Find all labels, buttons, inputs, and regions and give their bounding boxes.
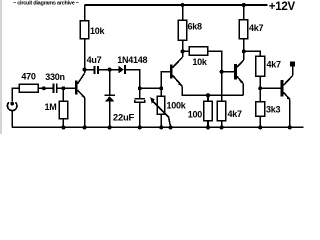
svg-text:6k8: 6k8	[188, 21, 203, 31]
svg-text:+12V: +12V	[269, 1, 296, 13]
wire jack tip to R470	[12, 88, 19, 101]
+12V rail (top)	[85, 4, 268, 6]
svg-text:330n: 330n	[45, 72, 65, 82]
label +12V	[269, 1, 296, 13]
transistor Q2	[171, 51, 182, 86]
wire C4u7 to D1	[98, 69, 119, 71]
diode D2 (clamp to ground)	[104, 70, 115, 128]
resistor 4k7 (emitter)	[217, 101, 226, 120]
ground rail (bottom)	[12, 126, 303, 128]
wire to Q4 base	[260, 87, 281, 89]
resistor 3k3	[259, 88, 261, 102]
node envelope junction	[138, 86, 142, 90]
node Q1 collector junction	[83, 68, 87, 72]
capacitor 22uF	[135, 88, 145, 127]
transistor Q4	[282, 66, 293, 99]
wire node A down to 1M	[62, 88, 64, 101]
svg-text:4k7: 4k7	[249, 23, 264, 33]
node Q4 base	[258, 86, 262, 90]
wire R100 drop	[207, 95, 209, 101]
node R100 junction	[206, 93, 210, 97]
svg-text:1N4148: 1N4148	[117, 55, 147, 65]
node Q3 base tap	[220, 70, 224, 74]
svg-text:100: 100	[188, 110, 203, 120]
node Q3 collector / 4k7	[242, 49, 246, 53]
output terminal	[290, 62, 295, 67]
resistor 10k (Q1 collector load)	[84, 5, 86, 21]
capacitor 4u7	[94, 66, 96, 74]
resistor 4k7 (interstage)	[256, 56, 265, 76]
transistor Q3	[236, 51, 244, 83]
svg-text:100k: 100k	[167, 101, 187, 111]
svg-text:470: 470	[21, 71, 36, 81]
wire Q1 emitter to ground	[84, 98, 86, 128]
svg-text:10k: 10k	[192, 57, 208, 67]
watermark smudge	[13, 1, 79, 7]
svg-text:1M: 1M	[44, 102, 56, 112]
wire 10k right to riser	[208, 51, 222, 101]
svg-text:3k3: 3k3	[266, 105, 281, 115]
input jack J1	[7, 102, 17, 128]
wire C330n to Q1 base	[57, 87, 75, 89]
resistor 100	[204, 101, 213, 120]
frame left faint edge	[0, 0, 2, 134]
node dot	[42, 86, 46, 90]
svg-text:4k7: 4k7	[267, 60, 282, 70]
wire collector to C4u7	[85, 69, 95, 71]
node Q2 collector	[181, 49, 185, 53]
svg-text:~ circuit diagrams archive ~: ~ circuit diagrams archive ~	[13, 1, 79, 7]
resistor 4k7 (Q3 collector load)	[242, 3, 246, 7]
wire Q4 emitter to ground	[289, 99, 291, 127]
wire 1M to ground	[62, 119, 64, 128]
wire R470 to C330n	[38, 87, 53, 89]
potentiometer 100k	[150, 88, 170, 127]
wire Q3 emitter down	[242, 84, 244, 95]
resistor 6k8	[181, 3, 185, 7]
wire node up to Q2 base	[161, 72, 170, 89]
node pot / Q2 base	[159, 86, 163, 90]
wire envelope node to pot node	[140, 87, 161, 89]
wire Q2 emitter down and right	[182, 86, 243, 95]
node D2 tap	[108, 68, 112, 72]
wire D1 to envelope node	[125, 70, 140, 89]
svg-text:22uF: 22uF	[113, 113, 135, 124]
resistor 470	[19, 84, 38, 92]
wire to Q3 base	[222, 71, 235, 73]
wire node to 4k7 second	[244, 51, 260, 56]
svg-text:10k: 10k	[90, 26, 106, 36]
node A (base / 1M)	[61, 86, 65, 90]
svg-text:4k7: 4k7	[228, 109, 243, 119]
capacitor 330n	[52, 84, 54, 93]
svg-text:4u7: 4u7	[87, 55, 102, 65]
resistor 1M	[59, 101, 68, 119]
transistor Q1	[76, 70, 84, 98]
resistor 10k (horizontal)	[183, 50, 189, 52]
diode D1 1N4148	[118, 66, 124, 74]
